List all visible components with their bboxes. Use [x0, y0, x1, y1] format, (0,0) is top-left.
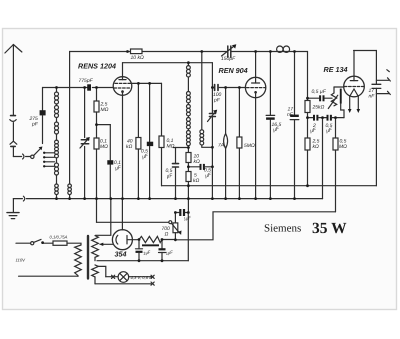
grid resistor 5 MOhm column: [237, 88, 242, 199]
capacitor 2uF: [308, 115, 323, 121]
svg-text:0,1/0,75A: 0,1/0,75A: [50, 235, 68, 240]
B+ wire from choke: [162, 239, 175, 241]
blocking capacitor 0,5uF: [147, 83, 153, 198]
HV secondary top lead: [96, 199, 111, 236]
svg-text:pF: pF: [31, 122, 39, 128]
grid resistor 0,5 MOhm column to B+ rail: [333, 118, 338, 212]
RE134 anode wire to output: [354, 51, 377, 85]
resistor 2,5 kOhm: [305, 138, 310, 186]
tube RENS 1204: [113, 77, 132, 96]
padding trimmer column: [80, 88, 90, 199]
svg-text:MΩ: MΩ: [339, 144, 347, 150]
svg-text:pF: pF: [213, 98, 221, 104]
svg-text:Siemens: Siemens: [264, 223, 301, 235]
ground symbol: [7, 199, 19, 219]
svg-text:RENS 1204: RENS 1204: [78, 62, 116, 71]
anode tap arrow into HV winding: [99, 243, 114, 246]
loudspeaker terminals: [376, 70, 390, 95]
RE134 filament leads with arrows: [348, 96, 360, 113]
REN904 anode riser to HT bus: [255, 52, 257, 78]
svg-text:kΩ: kΩ: [126, 144, 133, 150]
grid leak resistor 2,5 MOhm: [94, 88, 99, 125]
capacitor 17nF column: [290, 52, 299, 199]
RF choke on HT bus: [277, 46, 290, 52]
power transformer primary: [75, 245, 82, 276]
resistor 25 kOhm (output grid feed): [305, 52, 310, 139]
trimmer capacitor 150pF on HT bus: [222, 44, 237, 57]
resistor 5 kOhm (IFT chain): [186, 172, 191, 213]
svg-text:0,5 µF: 0,5 µF: [312, 89, 327, 95]
chassis bus riser to cap junction: [322, 118, 324, 199]
coupling capacitor 0,5uF to detector: [188, 164, 212, 170]
svg-text:10 kΩ: 10 kΩ: [131, 55, 144, 61]
354 anode riser to bus: [121, 199, 123, 230]
capacitor 0,5uF: [323, 115, 345, 121]
antenna symbol: [5, 45, 22, 116]
IF transformer secondary coil: [200, 52, 212, 148]
svg-text:RE 134: RE 134: [324, 65, 348, 74]
smoothing capacitor 16,5uF column: [266, 52, 275, 199]
series antenna capacitor 275pF: [40, 88, 46, 144]
capacitor 1uF across potentiometer: [175, 209, 188, 216]
top HT bus: [70, 51, 308, 53]
svg-text:MΩ: MΩ: [167, 144, 175, 150]
svg-text:150pF: 150pF: [221, 56, 236, 62]
svg-text:MΩ: MΩ: [101, 107, 109, 113]
anode rail A: [162, 185, 377, 187]
tube REN 904: [245, 77, 265, 97]
svg-text:Ω: Ω: [165, 232, 169, 238]
svg-text:kΩ: kΩ: [313, 144, 320, 150]
bypass capacitor 0,5uF at 5k junction: [173, 148, 189, 199]
mains lower wire: [19, 275, 78, 277]
IF transformer primary coil: [187, 63, 191, 153]
rectifier tube 354: [112, 230, 132, 250]
filament return wire: [95, 282, 154, 285]
svg-text:4,3 V, 0,6 A: 4,3 V, 0,6 A: [131, 275, 153, 280]
svg-text:REN 904: REN 904: [219, 66, 248, 75]
svg-text:kΩ: kΩ: [194, 159, 201, 165]
svg-text:kΩ: kΩ: [193, 178, 200, 184]
resistor 10 kOhm (IFT chain): [186, 153, 191, 172]
grid potentiometer of RE134: [328, 87, 344, 118]
transformer filament winding: [92, 265, 99, 284]
REN904 cathode lead: [255, 92, 257, 198]
branch to 0,1uF cathode capacitor: [97, 125, 114, 199]
svg-text:7A: 7A: [218, 143, 225, 149]
antenna coupling coil L2 (bottom of screen-feed column): [68, 52, 72, 199]
resistor 0,1 MOhm (screen bleeder): [159, 83, 164, 185]
svg-text:775pF: 775pF: [79, 78, 94, 84]
transformer HV secondary: [92, 236, 99, 261]
svg-text:nF: nF: [287, 112, 294, 118]
fuse 7A column: [224, 88, 228, 199]
potentiometer slider wire to cathode column: [97, 199, 169, 223]
svg-text:5MΩ: 5MΩ: [244, 143, 255, 149]
antenna tuning coil L1: [55, 88, 59, 199]
svg-text:110V: 110V: [16, 258, 27, 263]
svg-text:nF: nF: [369, 94, 376, 100]
RENS1204 screen wire to right columns: [130, 82, 161, 84]
svg-text:25kΩ: 25kΩ: [312, 105, 325, 111]
coupling capacitor 0,5uF to RE134 grid: [308, 95, 333, 101]
coil taps with selector contacts: [43, 152, 55, 168]
filter capacitor 1uF (first): [136, 240, 143, 261]
filter capacitor 1uF (second): [159, 240, 166, 261]
svg-text:354: 354: [115, 250, 127, 259]
REN904 grid wire: [212, 85, 246, 91]
dial lamp circuit: [98, 266, 154, 282]
output capacitor 17nF: [372, 84, 381, 185]
B+ rail to output stage: [175, 212, 335, 240]
svg-text:MΩ: MΩ: [100, 144, 108, 150]
hum potentiometer 700 Ohm: [169, 213, 182, 240]
mains fuse 0,1/0,75A: [43, 241, 81, 245]
RENS1204 anode lead to IF transformer: [123, 63, 213, 77]
ground bus wire with connector: [13, 196, 322, 201]
354 output wire: [132, 239, 139, 241]
wave-change switch blade: [31, 147, 43, 159]
series resistor 10 kOhm on HT bus: [131, 49, 143, 54]
grid wire of RENS1204: [43, 87, 114, 89]
mains switch: [16, 239, 41, 244]
PSU ground rail: [97, 260, 188, 262]
ground return riser: [187, 213, 189, 261]
antenna plug-socket connector: [10, 116, 17, 157]
grid capacitor 775pF: [87, 84, 91, 90]
svg-text:35 W: 35 W: [312, 220, 347, 237]
RE134 grid wire: [334, 86, 344, 88]
resistor 40 kOhm: [136, 83, 141, 198]
tube RE 134: [344, 76, 365, 97]
filter choke with core bar: [139, 236, 162, 246]
antenna feed wire to wave switch: [13, 154, 30, 159]
resistor 0,1 MOhm below grid leak: [94, 125, 99, 199]
transformer core: [87, 236, 89, 279]
RENS1204 cathode lead: [122, 92, 124, 199]
detector grid riser with trimmer: [208, 63, 218, 199]
